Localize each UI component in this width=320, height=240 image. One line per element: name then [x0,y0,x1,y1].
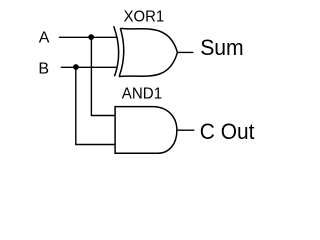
and gate AND1 [115,107,177,154]
svg-text:XOR1: XOR1 [124,9,165,26]
junction dot on B [73,64,79,70]
wire XOR output to Sum [177,51,193,53]
svg-text:B: B [38,60,49,77]
svg-text:C Out: C Out [200,119,255,144]
wire A branch to AND top input [91,37,115,115]
wire B branch to AND bottom input [76,67,116,144]
xor gate XOR1 body [119,28,177,76]
wire B horizontal [61,66,117,68]
xor gate XOR1 input arc [114,26,119,76]
svg-text:Sum: Sum [200,35,244,60]
junction dot on A [88,34,94,40]
svg-text:A: A [39,30,50,47]
wire AND output to C Out [177,129,194,131]
svg-text:AND1: AND1 [122,86,163,103]
wire A horizontal [59,36,117,38]
